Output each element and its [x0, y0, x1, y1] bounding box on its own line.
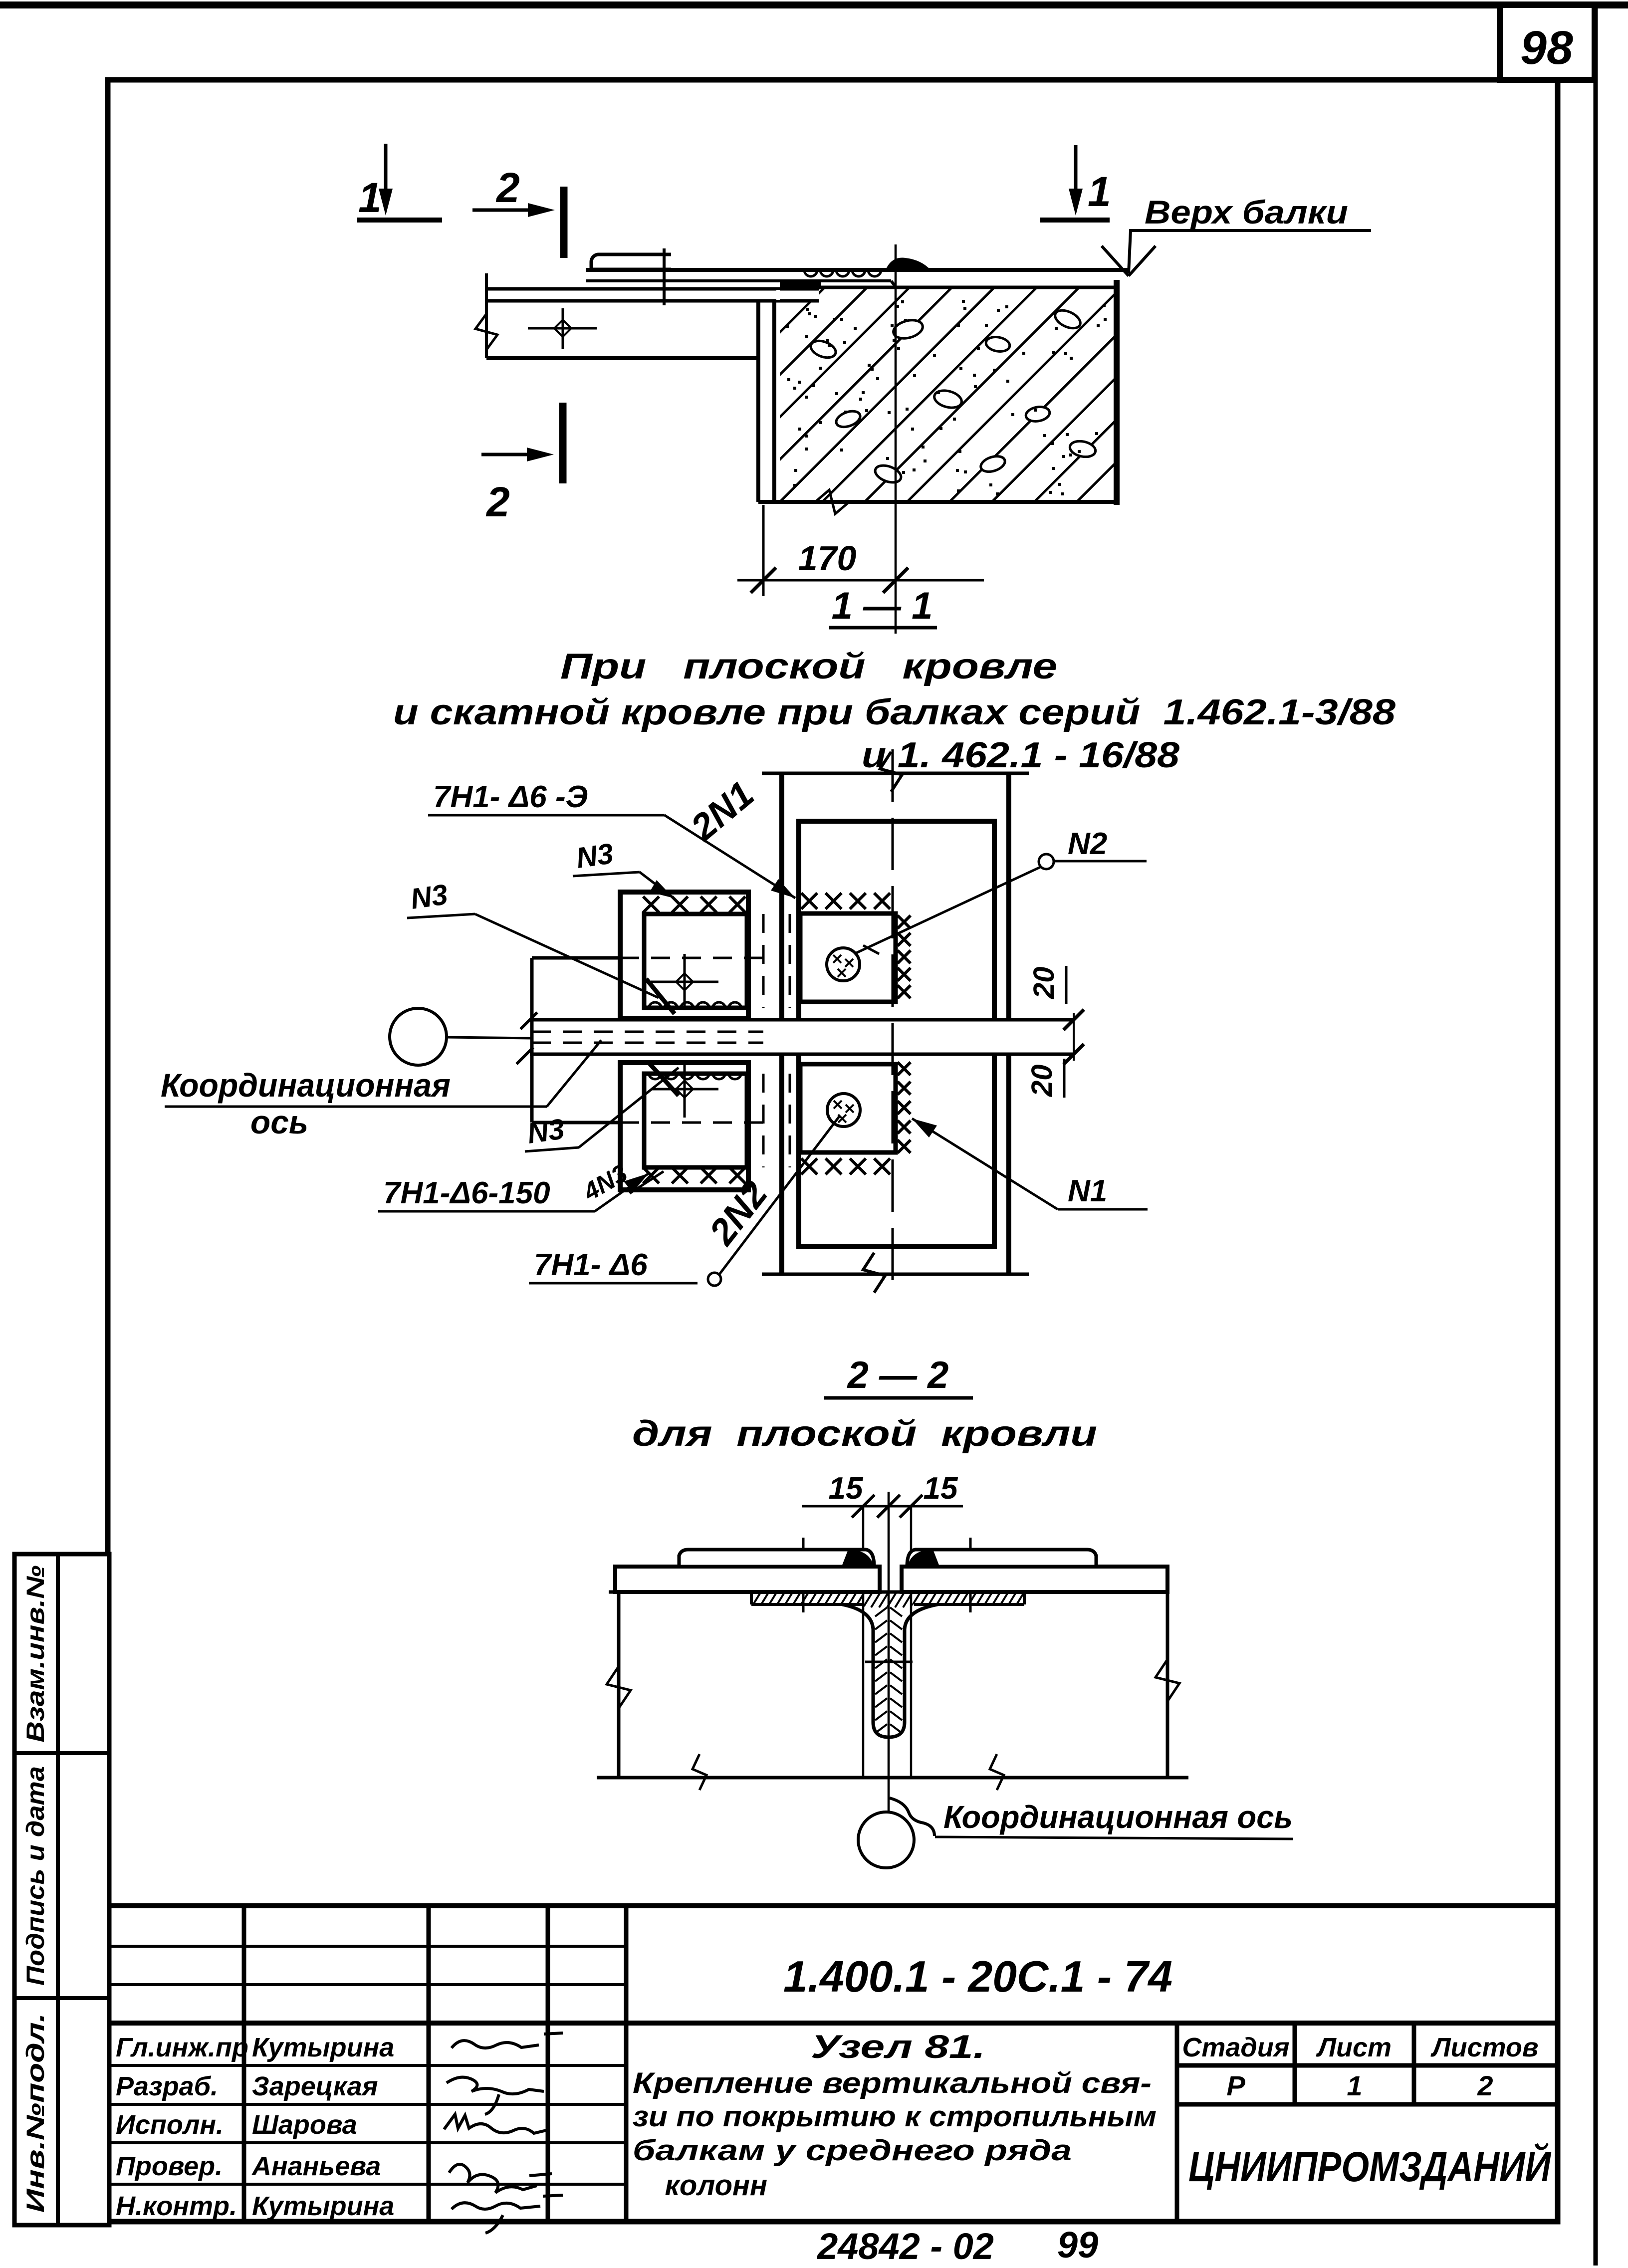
coordination axis circle	[390, 1008, 447, 1065]
plate cut tick right	[969, 1538, 972, 1612]
svg-text:2N1: 2N1	[682, 773, 761, 849]
svg-text:для плоской кровли: для плоской кровли	[632, 1414, 1097, 1454]
dim 15 extension left	[862, 1506, 865, 1778]
coordination axis leader curl 2-2	[890, 1798, 934, 1836]
title block column line x1255	[624, 1906, 629, 2222]
title block column line x859	[427, 1906, 431, 2222]
section mark 1 right : arrowhead	[1069, 189, 1083, 216]
signature squiggle row2	[447, 2077, 544, 2114]
svg-text:Лист: Лист	[1316, 2033, 1392, 2062]
beam bottom break left	[693, 1754, 706, 1790]
svg-text:N3: N3	[525, 1113, 566, 1150]
section mark 1 right : arrow line	[1074, 145, 1078, 200]
tie plate bearing black bar	[780, 281, 821, 289]
upper socket plate N1 outer	[620, 892, 748, 1019]
weld blob on roof plate	[886, 258, 930, 270]
hidden flange dash vertical upper	[789, 914, 791, 1008]
brace end tick lower	[1064, 1044, 1084, 1065]
dim 170 tick left	[751, 568, 776, 593]
lower socket plate N1 outer	[620, 1063, 748, 1190]
upper crosshair vertical	[684, 954, 686, 1010]
label 7N1-D6 underline	[529, 1282, 698, 1285]
svg-text:1: 1	[1347, 2070, 1362, 2101]
svg-text:Координационная ось: Координационная ось	[943, 1799, 1293, 1835]
right plate weld blob	[907, 1550, 940, 1568]
svg-text:15: 15	[924, 1471, 958, 1506]
stem herringbone hatch	[875, 1607, 902, 1733]
left margin stamp strip outline	[14, 1554, 109, 2225]
stem rounded bottom	[873, 1722, 905, 1737]
rafter beam bottom break mark	[863, 1253, 885, 1293]
hidden edge dashes upper horizontal	[620, 957, 768, 959]
leader N3 first arrow	[650, 880, 674, 898]
svg-text:2: 2	[1477, 2070, 1493, 2101]
label N3 first underline	[573, 872, 640, 876]
weld x row upper beam plate	[801, 893, 817, 909]
section mark 2 upper : arrowhead	[528, 203, 555, 217]
svg-text:Верх балки: Верх балки	[1145, 194, 1348, 230]
brace end extension	[1073, 1013, 1075, 1061]
hidden flange dash vertical lower	[789, 1074, 791, 1167]
beam centre mark diamond	[554, 320, 571, 337]
svg-text:зи по покрытию к стропильным: зи по покрытию к стропильным	[633, 2100, 1157, 2133]
concrete column top edge	[780, 286, 1117, 289]
coordination axis label underline	[165, 1106, 547, 1108]
left strip divider Vzam/Podpis	[14, 1751, 109, 1755]
roof plate right step	[891, 281, 896, 287]
svg-text:7Н1- Δ6 -Э: 7Н1- Δ6 -Э	[433, 780, 588, 814]
svg-text:Инв.№подл.: Инв.№подл.	[21, 2013, 49, 2213]
svg-text:Кутырина: Кутырина	[252, 2191, 394, 2221]
svg-text:Листов: Листов	[1430, 2033, 1538, 2062]
leader N3 third	[579, 1068, 679, 1147]
leader circle 7N1-D6	[708, 1273, 721, 1286]
label 7N1-D6-E underline	[428, 814, 665, 817]
svg-text:Координационная: Координационная	[161, 1067, 451, 1104]
leader N1 arrow	[912, 1119, 937, 1137]
svg-text:Узел 81.: Узел 81.	[811, 2028, 985, 2065]
label N1 underline	[1058, 1208, 1148, 1211]
concrete stones	[808, 338, 838, 361]
plug weld scallops lower plate	[649, 1073, 741, 1079]
svg-text:2: 2	[485, 478, 510, 525]
dim 170 extension line	[762, 505, 765, 596]
section mark 2 upper : cut bar	[560, 187, 568, 258]
page number box top right	[1500, 5, 1595, 80]
svg-text:170: 170	[798, 539, 857, 578]
hidden edge dash vertical lower	[762, 1074, 765, 1167]
beam left cut edge	[485, 273, 488, 358]
dim 15 tick left	[852, 1495, 875, 1518]
weld x row lower fish plate	[643, 1167, 659, 1183]
upper beam plate	[800, 913, 896, 1002]
svg-text:1 — 1: 1 — 1	[832, 585, 933, 627]
svg-text:Исполн.: Исполн.	[116, 2110, 224, 2140]
dim 170 tick right	[883, 568, 908, 593]
lower beam plate	[800, 1064, 896, 1152]
brace stub top edge	[532, 956, 620, 960]
title block top border	[108, 1903, 1557, 1908]
svg-text:N3: N3	[574, 837, 615, 875]
svg-text:балкам у среднего ряда: балкам у среднего ряда	[633, 2134, 1072, 2167]
beam web left edge 2-2	[617, 1592, 621, 1778]
sheet right outer border line	[1594, 1, 1598, 2266]
list divider	[1293, 2023, 1297, 2104]
svg-text:Н.контр.: Н.контр.	[116, 2191, 237, 2221]
stadia cell border	[1175, 2023, 1179, 2222]
section mark 2 lower : arrowhead	[527, 448, 554, 461]
plug weld scallops upper plate	[649, 1002, 741, 1009]
beam web right edge 2-2	[1166, 1592, 1169, 1778]
svg-text:Разраб.: Разраб.	[116, 2071, 218, 2101]
svg-text:2: 2	[495, 164, 520, 211]
label N2 underline	[1054, 860, 1147, 863]
section axis line through concrete	[895, 244, 897, 634]
title block staff row line y4218	[108, 2103, 626, 2106]
svg-text:и 1. 462.1 - 16/88: и 1. 462.1 - 16/88	[862, 735, 1179, 775]
signature squiggle row1	[452, 2033, 563, 2048]
svg-text:20: 20	[1028, 966, 1060, 999]
svg-text:Шарова: Шарова	[252, 2110, 357, 2140]
rafter beam top break mark	[880, 752, 902, 792]
leader N3 second weld stroke	[646, 979, 675, 1014]
stem left edge	[872, 1627, 875, 1722]
roof plate tick	[663, 248, 666, 305]
leader 4N3	[630, 1171, 664, 1193]
svg-text:N1: N1	[1068, 1174, 1107, 1208]
bracket vertical leg outer line	[756, 301, 760, 502]
flange strip bottom left	[751, 1603, 862, 1606]
lower fish plate N3	[644, 1074, 747, 1167]
left cover plate	[615, 1567, 880, 1592]
weld x row upper fish plate	[643, 897, 659, 912]
section mark 1 left : arrowhead	[379, 189, 393, 216]
beam web left break	[607, 1666, 631, 1708]
section mark 2 lower : cut bar	[559, 403, 567, 483]
svg-text:и скатной кровле при балках се: и скатной кровле при балках серий 1.462.…	[393, 692, 1395, 732]
svg-text:ЦНИИПРОМЗДАНИЙ: ЦНИИПРОМЗДАНИЙ	[1188, 2143, 1551, 2190]
right top plate	[907, 1550, 1096, 1567]
brace gusset white-out through beam	[763, 1019, 1075, 1053]
svg-text:Гл.инж.пр: Гл.инж.пр	[116, 2033, 248, 2062]
label 7N1-D6-150 underline	[378, 1210, 595, 1213]
weld chain on roof plate	[804, 270, 881, 276]
brace hidden edge dash lower	[532, 1042, 763, 1044]
svg-text:Ананьева: Ананьева	[251, 2151, 381, 2181]
lower bolt circle	[827, 1094, 860, 1127]
plate cut tick left	[802, 1538, 805, 1612]
svg-text:24842 - 02: 24842 - 02	[816, 2226, 994, 2266]
concrete column right edge	[1114, 280, 1120, 505]
listov divider	[1412, 2023, 1416, 2104]
leader N1 line	[912, 1119, 1058, 1209]
coordination axis line	[447, 1037, 532, 1038]
title block staff row line y4295	[108, 2141, 626, 2144]
section mark 1 right : underline bar	[1040, 218, 1110, 223]
lower crosshair diamond	[676, 1081, 693, 1098]
brace end break slash lower	[516, 1047, 533, 1064]
svg-text:7Н1-Δ6-150: 7Н1-Δ6-150	[383, 1176, 550, 1210]
svg-text:Взам.инв.№: Взам.инв.№	[21, 1566, 49, 1743]
rafter beam web inner rect	[799, 821, 994, 1247]
roof plate second line	[586, 279, 891, 282]
leader N2 second stroke	[863, 945, 879, 954]
svg-text:98: 98	[1520, 21, 1573, 74]
section mark 1 left : underline bar	[357, 218, 442, 223]
title block staff row line y4378	[108, 2183, 626, 2186]
signature squiggle row4	[449, 2164, 552, 2193]
flange strip left end	[750, 1592, 753, 1604]
beam web right break	[1156, 1659, 1179, 1701]
svg-text:2 — 2: 2 — 2	[847, 1354, 949, 1396]
concrete column bottom edge	[758, 500, 1117, 504]
leader N3 second	[475, 914, 659, 998]
beam tie plate top line	[486, 287, 819, 291]
section title 1-1 underline	[829, 626, 937, 630]
coordination axis label underline 2-2	[935, 1837, 1293, 1839]
dim 15 tick right	[900, 1495, 923, 1518]
roof stub plate (rounded end)	[591, 254, 671, 269]
flange strip right end	[1023, 1592, 1026, 1604]
dim 15 extension right	[910, 1506, 913, 1778]
signature squiggle row3	[444, 2114, 546, 2133]
flange line full width	[609, 1590, 1167, 1594]
svg-text:колонн: колонн	[633, 2169, 767, 2202]
left strip divider Podpis/Inv	[14, 1996, 109, 2000]
stadia value row line	[1177, 2102, 1557, 2107]
hidden edge dashes lower horizontal	[620, 1122, 768, 1124]
rafter beam left flange edge	[779, 773, 784, 1274]
stem right fillet	[905, 1604, 937, 1629]
left top plate	[679, 1550, 874, 1567]
rafter beam right flange edge	[1006, 773, 1011, 1274]
svg-text:Р: Р	[1226, 2070, 1245, 2101]
verkh balki leader line	[1129, 230, 1371, 273]
section mark 2 lower : arrow line	[481, 453, 538, 456]
title block upper row line y3901	[108, 1945, 626, 1948]
roof plate top line	[586, 268, 1129, 272]
leader N3 first	[640, 872, 674, 898]
right cover plate	[902, 1567, 1167, 1592]
svg-text:1: 1	[1088, 168, 1111, 215]
brace stub left edge	[530, 958, 534, 1123]
leader N2 line	[854, 867, 1040, 954]
leader circle N2	[1039, 854, 1054, 869]
brace end tick upper	[1064, 1010, 1084, 1030]
left plate weld blob	[841, 1550, 874, 1568]
leader N3 third weld stroke	[650, 1064, 679, 1096]
beam centre mark vertical	[562, 308, 564, 349]
dim 170 line	[737, 579, 984, 582]
leader 7N1-D6-150	[595, 1173, 649, 1211]
concrete bottom break mark	[815, 490, 849, 514]
sheet top border line	[0, 1, 1628, 8]
weld x col upper beam plate	[898, 915, 911, 928]
coordination axis circle 2-2	[858, 1812, 914, 1868]
svg-text:Крепление вертикальной свя-: Крепление вертикальной свя-	[633, 2067, 1152, 2099]
beam left break mark	[475, 314, 497, 350]
upper fish plate N3	[644, 914, 747, 1008]
svg-text:N3: N3	[409, 878, 450, 915]
brace end break slash upper	[520, 1012, 537, 1029]
lower crosshair vertical	[684, 1062, 686, 1118]
section mark 1 left : arrow line	[384, 144, 388, 200]
dim 15 line	[802, 1505, 963, 1508]
flange strip bottom right	[914, 1603, 1024, 1606]
title block thick middle border	[108, 2021, 1557, 2026]
section mark 2 upper : arrow line	[472, 209, 539, 212]
title block column line x489	[242, 1906, 246, 2222]
brace gusset top edge	[530, 1018, 1074, 1022]
stem anchor line	[865, 1661, 913, 1663]
dim 15 tick mid	[877, 1495, 900, 1518]
svg-text:Провер.: Провер.	[116, 2151, 223, 2181]
brace stub bottom edge	[532, 1121, 620, 1125]
signature squiggle row5	[452, 2195, 563, 2233]
svg-text:Подпись и дата: Подпись и дата	[21, 1766, 49, 1986]
plan centreline dashed	[892, 749, 894, 1295]
svg-text:20: 20	[1026, 1064, 1058, 1097]
upper bolt circle	[827, 948, 860, 981]
leader arrow 7N1-D6-150	[624, 1173, 649, 1192]
upper crosshair diamond	[676, 973, 693, 990]
svg-text:7Н1- Δ6: 7Н1- Δ6	[534, 1248, 648, 1282]
title block upper row line y3978	[108, 1983, 626, 1986]
weld x col lower beam plate	[898, 1062, 911, 1075]
svg-text:Зарецкая: Зарецкая	[252, 2071, 378, 2101]
svg-text:При плоской кровле: При плоской кровле	[560, 647, 1057, 686]
beam bottom cut line 2-2	[597, 1776, 1188, 1780]
beam centre mark horizontal	[528, 327, 597, 330]
beam bottom break right	[990, 1754, 1004, 1790]
weld x row lower beam plate	[801, 1158, 817, 1174]
label N3 second underline	[407, 914, 475, 918]
leader arrow 7N1-D6-E	[771, 879, 795, 898]
concrete dots	[786, 300, 1107, 495]
beam tie plate bottom line	[486, 299, 819, 303]
stem left fillet	[842, 1604, 873, 1629]
stem right edge	[903, 1627, 907, 1722]
svg-text:N2: N2	[1068, 827, 1107, 861]
lower crosshair horizontal	[651, 1088, 718, 1091]
brace gusset bottom edge	[530, 1053, 1074, 1056]
verkh balki leader arrowhead	[1102, 246, 1156, 276]
svg-text:15: 15	[829, 1471, 864, 1506]
upper crosshair horizontal	[651, 981, 718, 983]
title block staff row line y4140	[108, 2064, 626, 2067]
svg-text:Стадия: Стадия	[1182, 2033, 1289, 2062]
bracket vertical leg inner line	[772, 301, 776, 502]
svg-text:1.400.1 - 20С.1 - 74: 1.400.1 - 20С.1 - 74	[783, 1952, 1172, 2001]
beam body bottom line	[486, 356, 758, 360]
dim 20 upper underline	[1065, 966, 1068, 1004]
svg-text:99: 99	[1057, 2224, 1098, 2266]
label N3 third underline	[525, 1147, 579, 1151]
rafter beam bottom cut line	[762, 1273, 1029, 1276]
leader 2N2 line	[719, 1117, 839, 1274]
brace hidden edge dash upper	[532, 1031, 763, 1033]
dim 20 lower underline	[1063, 1059, 1066, 1098]
svg-text:ось: ось	[250, 1104, 308, 1140]
left strip inner vertical divider	[56, 1554, 60, 2225]
svg-text:1: 1	[358, 174, 382, 221]
coordination axis leader diagonal	[547, 1040, 601, 1107]
leader 7N1-D6-E	[665, 815, 795, 898]
hidden edge dash vertical upper	[762, 914, 765, 1008]
svg-text:Кутырина: Кутырина	[252, 2033, 394, 2062]
tie plate slot in concrete	[776, 290, 819, 300]
section title 2-2 underline	[824, 1396, 973, 1400]
stadia header row line	[1177, 2063, 1557, 2068]
rafter beam top cut line	[762, 772, 1029, 775]
title block column line x1098	[546, 1906, 550, 2222]
section 2-2 centreline	[888, 1492, 890, 1811]
